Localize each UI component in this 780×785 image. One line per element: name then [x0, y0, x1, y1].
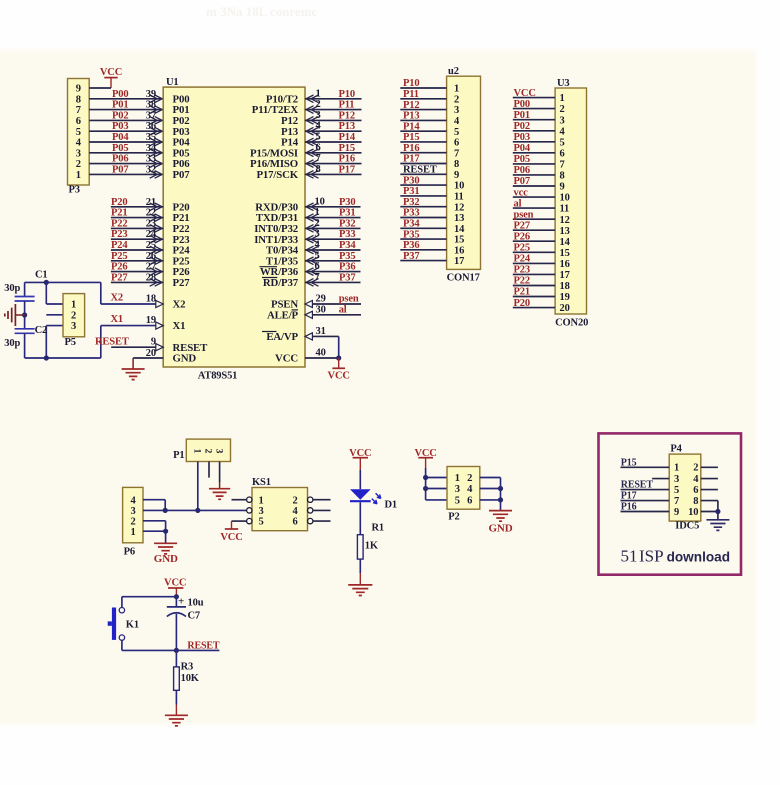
svg-text:14: 14	[454, 224, 465, 235]
svg-text:P35: P35	[339, 251, 355, 262]
svg-text:9: 9	[454, 170, 459, 181]
svg-text:RD/P37: RD/P37	[263, 277, 299, 289]
capacitor C1	[15, 297, 35, 302]
svg-text:7: 7	[76, 105, 81, 116]
connector U3 (CON20)	[555, 88, 586, 314]
svg-text:VCC: VCC	[275, 353, 298, 365]
svg-text:5: 5	[674, 485, 679, 496]
svg-text:P06: P06	[112, 154, 128, 165]
wire KS1 pin6 stub	[313, 520, 331, 522]
wire P11 stub	[305, 106, 362, 114]
capacitor C7	[167, 596, 204, 617]
svg-text:al: al	[514, 198, 522, 209]
wire VCC to K1	[122, 597, 176, 608]
power VCC (D1)	[349, 448, 371, 470]
junction P1 pin1/bus	[195, 508, 200, 513]
junction crystal bottom	[44, 355, 49, 360]
svg-text:VCC: VCC	[514, 88, 536, 99]
wire P34 stub	[305, 246, 361, 254]
junction caps midpoint	[22, 312, 27, 317]
wire P07 (P3 to U1)	[89, 171, 163, 179]
wire u2 pin2 (P11)	[400, 98, 446, 100]
junction VCC/C7/K1	[174, 594, 179, 599]
wire u2 pin17 (P37)	[400, 260, 446, 262]
svg-text:X2: X2	[111, 293, 124, 304]
resistor R1	[357, 535, 363, 559]
svg-text:P22: P22	[514, 276, 530, 287]
svg-text:6: 6	[693, 485, 698, 496]
wire VCC to C7	[175, 597, 177, 607]
svg-text:10: 10	[454, 181, 464, 192]
wire U3 pin18 (P22)	[513, 285, 555, 287]
svg-text:5: 5	[315, 250, 320, 261]
svg-text:8: 8	[76, 94, 81, 105]
svg-text:P04: P04	[514, 143, 531, 154]
svg-text:GND: GND	[154, 553, 178, 565]
junction RESET net	[174, 648, 179, 653]
connector KS1	[252, 488, 308, 531]
svg-text:P26: P26	[111, 262, 127, 273]
wire P03 (P3 to U1)	[89, 127, 163, 135]
svg-text:psen: psen	[514, 209, 534, 220]
wire al (pin30)	[305, 311, 361, 318]
U1 left pin names	[173, 93, 209, 364]
svg-text:P05: P05	[112, 143, 128, 154]
svg-text:11: 11	[454, 192, 464, 203]
svg-text:19: 19	[560, 292, 570, 303]
svg-text:P21: P21	[514, 287, 530, 298]
svg-text:1K: 1K	[365, 541, 379, 552]
wire P17 stub	[305, 171, 362, 179]
wire cap column bottom	[24, 333, 26, 358]
wire u2 pin8 (P17)	[400, 163, 446, 165]
svg-text:P4: P4	[670, 443, 682, 454]
wire u2 pin4 (P13)	[400, 119, 446, 121]
svg-text:P10: P10	[403, 78, 419, 89]
svg-text:4: 4	[693, 474, 699, 485]
wire VCC column P2	[426, 468, 447, 500]
ground (R3)	[165, 715, 188, 726]
wire u2 pin14 (P34)	[400, 227, 446, 229]
svg-text:3: 3	[130, 506, 135, 517]
svg-text:5: 5	[258, 517, 263, 528]
svg-text:40: 40	[316, 348, 326, 359]
svg-text:27: 27	[146, 262, 156, 273]
connector P2	[447, 467, 480, 510]
svg-text:GND: GND	[489, 523, 513, 535]
svg-text:5: 5	[560, 137, 565, 148]
svg-text:P14: P14	[403, 121, 420, 132]
svg-text:18: 18	[146, 294, 156, 305]
svg-text:39: 39	[146, 89, 156, 100]
svg-text:P12: P12	[339, 110, 355, 121]
svg-text:6: 6	[76, 116, 81, 127]
svg-text:2: 2	[315, 218, 320, 229]
wire U3 pin16 (P24)	[513, 262, 555, 264]
wire P15 (P4 pin1)	[621, 466, 670, 468]
svg-text:13: 13	[560, 226, 570, 237]
LED D1	[350, 489, 371, 501]
svg-text:9: 9	[560, 182, 565, 193]
svg-text:GND: GND	[173, 353, 197, 365]
svg-text:35: 35	[146, 132, 156, 143]
wire P26 stub	[111, 268, 163, 276]
junction P2 pin3	[423, 486, 428, 491]
svg-text:7: 7	[316, 153, 321, 164]
wire P14 stub	[305, 138, 362, 146]
wire u2 pin5 (P14)	[400, 130, 446, 132]
svg-text:P12: P12	[403, 100, 419, 111]
op-amp U1 AT89S51 body	[163, 87, 305, 367]
svg-text:51ISPdownload: 51ISPdownload	[621, 547, 731, 566]
wire P1 pin1	[197, 462, 199, 511]
wire bus P6 pin3 to KS1 pin3	[143, 509, 247, 511]
svg-text:3: 3	[454, 105, 459, 116]
junction P2 pin4	[498, 486, 503, 491]
svg-text:4: 4	[316, 121, 322, 132]
ISP outline box	[599, 433, 742, 574]
wire P32 stub	[305, 225, 361, 233]
wire C7 to RESET net	[175, 614, 177, 651]
svg-text:4: 4	[130, 495, 136, 506]
svg-text:P36: P36	[339, 262, 355, 273]
svg-text:psen: psen	[339, 294, 359, 305]
svg-text:P23: P23	[111, 229, 127, 240]
svg-text:P03: P03	[112, 121, 128, 132]
svg-text:P17: P17	[339, 164, 355, 175]
svg-text:22: 22	[146, 208, 156, 219]
svg-text:P2: P2	[448, 512, 459, 523]
svg-text:29: 29	[316, 294, 326, 305]
svg-text:VCC: VCC	[328, 371, 350, 382]
svg-text:7: 7	[315, 272, 320, 283]
svg-text:P22: P22	[111, 218, 127, 229]
junction crystal top	[44, 280, 49, 285]
wire P12 stub	[305, 117, 362, 125]
wire u2 pin12 (P32)	[400, 206, 446, 208]
wire P5 pin1	[46, 282, 63, 304]
svg-text:1: 1	[316, 88, 321, 99]
wire u2 pin10 (P30)	[400, 184, 446, 186]
connector P5	[63, 294, 85, 337]
power VCC (KS1 pin5)	[220, 529, 242, 543]
svg-text:3: 3	[76, 148, 81, 159]
svg-text:9: 9	[76, 84, 81, 95]
wire P23 stub	[111, 235, 163, 243]
svg-text:10u: 10u	[188, 598, 204, 609]
wire P31 stub	[305, 214, 361, 222]
wire R3 to ground	[175, 690, 177, 715]
svg-text:P3: P3	[69, 185, 80, 196]
svg-text:P17: P17	[621, 491, 637, 502]
svg-text:2: 2	[76, 159, 81, 170]
svg-text:P07: P07	[112, 164, 128, 175]
svg-text:P13: P13	[403, 111, 419, 122]
wire U3 pin3 (P01)	[513, 119, 555, 121]
svg-text:IDC5: IDC5	[675, 521, 699, 532]
wire P16 stub	[305, 160, 362, 168]
svg-text:20: 20	[560, 303, 570, 314]
svg-text:P13: P13	[339, 121, 355, 132]
wire U3 pin1 (VCC)	[513, 97, 555, 99]
wire U3 pin7 (P05)	[513, 163, 555, 165]
svg-text:P26: P26	[514, 231, 530, 242]
svg-text:7: 7	[560, 160, 565, 171]
svg-text:C1: C1	[35, 270, 48, 281]
wire KS1 pin2 stub	[313, 499, 331, 501]
wire P5 pin3	[46, 326, 63, 358]
svg-text:1: 1	[130, 527, 135, 538]
svg-text:33: 33	[146, 154, 156, 165]
wire U3 pin13 (P27)	[513, 229, 555, 231]
wire P22 stub	[111, 225, 163, 233]
connector P4	[669, 454, 701, 521]
wire P5 pin2 stub	[46, 314, 63, 316]
svg-text:15: 15	[560, 248, 570, 259]
svg-text:7: 7	[454, 148, 459, 159]
svg-text:P17: P17	[403, 154, 419, 165]
svg-text:P15: P15	[403, 132, 419, 143]
wire U3 pin10 (vcc)	[513, 196, 555, 198]
svg-text:1: 1	[258, 495, 263, 506]
svg-text:P6: P6	[124, 547, 135, 558]
ground (crystal, rotated)	[5, 304, 16, 326]
junction P2 pin1	[423, 475, 428, 480]
svg-text:16: 16	[454, 245, 464, 256]
wire psen (pin29)	[305, 300, 361, 307]
svg-text:1: 1	[560, 93, 565, 104]
svg-text:8: 8	[560, 171, 565, 182]
svg-text:34: 34	[146, 143, 157, 154]
svg-text:C7: C7	[188, 611, 201, 622]
capacitor C2	[15, 329, 35, 334]
svg-text:P36: P36	[403, 240, 419, 251]
wire U3 pin17 (P23)	[513, 273, 555, 275]
svg-text:P15: P15	[339, 143, 355, 154]
svg-text:28: 28	[146, 272, 156, 283]
svg-text:P31: P31	[403, 186, 419, 197]
wire P1 pin3	[219, 462, 221, 489]
svg-text:P30: P30	[339, 197, 355, 208]
svg-text:X1: X1	[111, 314, 124, 325]
power VCC (reset)	[164, 578, 186, 597]
svg-text:P16: P16	[339, 154, 355, 165]
wire GND (U1 pin20)	[133, 358, 163, 369]
wire RESET (U1 pin9)	[111, 344, 163, 351]
svg-text:5: 5	[316, 132, 321, 143]
D1 light arrows	[372, 493, 381, 504]
svg-text:3: 3	[315, 229, 320, 240]
svg-text:2: 2	[71, 310, 76, 321]
wire KS1 pin4 stub	[313, 509, 331, 511]
wire U3 pin5 (P03)	[513, 141, 555, 143]
svg-text:6: 6	[454, 138, 459, 149]
wire X1	[101, 322, 163, 329]
svg-text:P23: P23	[514, 265, 530, 276]
svg-text:P14: P14	[339, 132, 356, 143]
wire P20 stub	[111, 203, 163, 211]
wire P6 pin2	[143, 521, 166, 531]
wire u2 pin13 (P33)	[400, 217, 446, 219]
svg-text:EA/VP: EA/VP	[266, 331, 298, 343]
ground (P4, IDC5)	[706, 520, 729, 531]
svg-text:1: 1	[192, 449, 202, 454]
wire R1 to ground	[359, 559, 361, 585]
svg-text:2: 2	[693, 463, 698, 474]
wire P4 pin8 to pin10	[701, 501, 718, 512]
svg-text:P25: P25	[111, 251, 127, 262]
svg-text:5: 5	[455, 496, 460, 507]
svg-text:P01: P01	[514, 110, 530, 121]
wire P06 (P3 to U1)	[89, 160, 163, 168]
connector u2 (CON17)	[447, 76, 481, 269]
wire RESET to R3	[175, 650, 177, 667]
connector P1	[186, 439, 230, 461]
pushbutton K1	[108, 608, 125, 641]
svg-text:P07: P07	[173, 169, 191, 181]
svg-text:u2: u2	[448, 66, 459, 77]
svg-text:3: 3	[560, 115, 565, 126]
svg-text:9: 9	[151, 337, 156, 348]
svg-text:P00: P00	[112, 89, 128, 100]
svg-text:10: 10	[315, 196, 325, 207]
connector P6	[123, 487, 143, 542]
wire EA/VP (pin31) to VCC net	[305, 333, 339, 358]
wire X2	[101, 300, 163, 307]
wire u2 pin15 (P35)	[400, 238, 446, 240]
wire P4 pin10 to ground	[701, 512, 718, 520]
wire D1 to R1	[359, 502, 361, 534]
svg-text:P16: P16	[403, 143, 419, 154]
junction P6 pin1/pin2	[163, 529, 168, 534]
wire U3 pin14 (P26)	[513, 240, 555, 242]
svg-text:VCC: VCC	[164, 578, 186, 589]
wire P21 stub	[111, 214, 163, 222]
wire VCC to D1	[359, 470, 361, 489]
svg-text:P02: P02	[112, 110, 128, 121]
svg-text:10: 10	[560, 193, 570, 204]
svg-text:3: 3	[213, 449, 223, 454]
svg-text:P37: P37	[339, 272, 355, 283]
svg-text:1: 1	[674, 463, 679, 474]
svg-text:ALE/P: ALE/P	[267, 309, 299, 321]
wire P2 right to ground	[480, 478, 501, 511]
svg-text:1: 1	[454, 84, 459, 95]
svg-text:8: 8	[316, 164, 321, 175]
wire P30 stub	[305, 203, 361, 211]
svg-text:4: 4	[467, 484, 473, 495]
svg-text:32: 32	[146, 164, 156, 175]
wire P3 pin9 to VCC	[89, 87, 111, 89]
svg-text:P27: P27	[111, 272, 127, 283]
wire P00 (P3 to U1)	[89, 95, 163, 103]
wire P25 stub	[111, 257, 163, 265]
svg-text:P21: P21	[111, 208, 127, 219]
svg-text:17: 17	[560, 270, 570, 281]
KS1 right pin circles	[308, 497, 313, 524]
svg-text:10: 10	[688, 507, 698, 518]
svg-text:2: 2	[467, 473, 472, 484]
wire U3 pin20 (P20)	[513, 307, 555, 309]
svg-text:P20: P20	[514, 298, 530, 309]
wire between caps	[24, 301, 26, 329]
svg-text:5: 5	[454, 127, 459, 138]
svg-text:P03: P03	[514, 132, 530, 143]
svg-text:37: 37	[146, 110, 156, 121]
ground (P2)	[489, 511, 512, 522]
svg-text:X2: X2	[173, 299, 186, 311]
svg-text:2: 2	[316, 99, 321, 110]
svg-text:AT89S51: AT89S51	[198, 370, 238, 381]
wire P1 pin2 stub	[208, 462, 210, 478]
ground (P1 pin3)	[209, 489, 230, 500]
wire P04 (P3 to U1)	[89, 138, 163, 146]
wire P27 stub	[111, 279, 163, 287]
svg-text:al: al	[339, 304, 347, 315]
svg-text:P16: P16	[621, 502, 637, 513]
svg-text:RESET: RESET	[621, 480, 654, 491]
wire U3 pin19 (P21)	[513, 296, 555, 298]
wire P02 (P3 to U1)	[89, 117, 163, 125]
wire P15 stub	[305, 149, 362, 157]
svg-text:P32: P32	[339, 218, 355, 229]
svg-text:vcc: vcc	[514, 187, 529, 198]
wire crystal bottom (C2/X1 net)	[25, 326, 101, 358]
wire KS1 pin5 to VCC	[232, 521, 247, 529]
svg-text:16: 16	[560, 259, 570, 270]
svg-text:P27: P27	[173, 277, 191, 289]
U1 right pin names	[250, 93, 299, 364]
wire u2 pin1 (P10)	[400, 87, 446, 89]
svg-text:17: 17	[454, 256, 464, 267]
svg-text:RESET: RESET	[187, 641, 220, 652]
wire P6 pin4	[143, 500, 165, 511]
wire crystal top (C1/X2 net)	[25, 282, 101, 304]
wire P10 stub	[305, 95, 362, 103]
wire P4 pin6 stub	[701, 489, 718, 491]
svg-text:30: 30	[316, 304, 326, 315]
svg-text:2: 2	[130, 516, 135, 527]
wire U3 pin11 (al)	[513, 207, 555, 209]
wire K1 to RESET net	[122, 640, 219, 650]
svg-text:20: 20	[146, 348, 156, 359]
svg-text:P34: P34	[403, 219, 420, 230]
svg-text:13: 13	[454, 213, 464, 224]
svg-text:C2: C2	[35, 325, 48, 336]
svg-text:3: 3	[316, 110, 321, 121]
svg-text:8: 8	[693, 496, 698, 507]
svg-text:25: 25	[146, 240, 156, 251]
wire U3 pin2 (P00)	[513, 108, 555, 110]
svg-text:1: 1	[71, 300, 76, 311]
wire P33 stub	[305, 235, 361, 243]
svg-text:1: 1	[455, 473, 460, 484]
svg-text:3: 3	[71, 321, 76, 332]
svg-text:CON20: CON20	[555, 318, 588, 329]
svg-text:P32: P32	[403, 197, 419, 208]
wire u2 pin3 (P12)	[400, 109, 446, 111]
svg-text:P24: P24	[111, 240, 128, 251]
svg-text:3: 3	[258, 506, 263, 517]
wire P36 stub	[305, 268, 361, 276]
svg-text:CON17: CON17	[447, 273, 480, 284]
wire P35 stub	[305, 257, 361, 265]
junction P2 pin6	[498, 497, 503, 502]
svg-text:30p: 30p	[4, 283, 20, 294]
svg-text:D1: D1	[385, 500, 398, 511]
junction P6 pin4/pin3	[163, 508, 168, 513]
power VCC (P2)	[414, 448, 436, 468]
